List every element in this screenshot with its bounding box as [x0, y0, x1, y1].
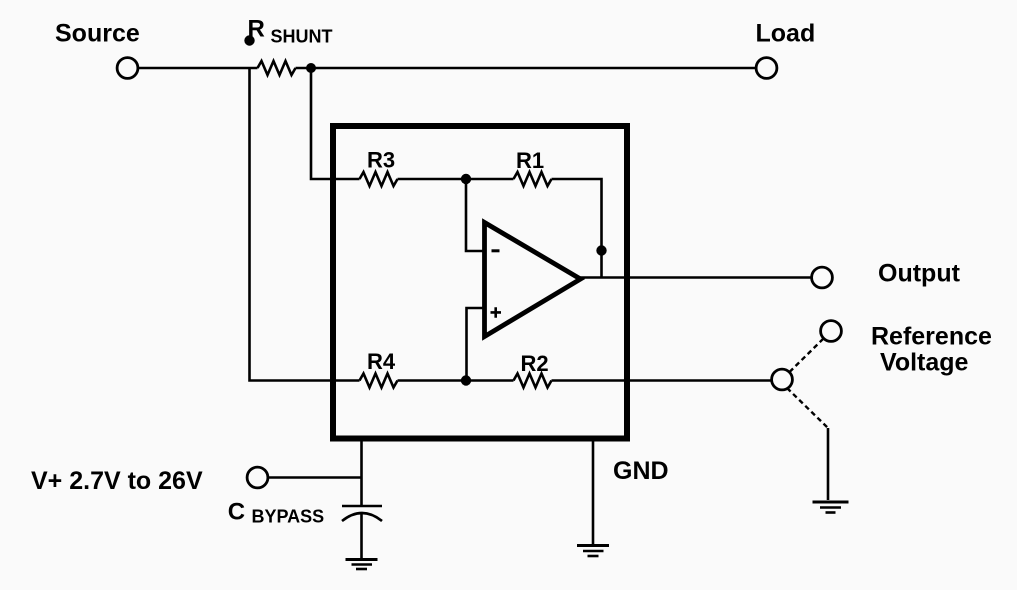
svg-text:R1: R1 — [516, 148, 544, 173]
ground reference symbol — [813, 502, 849, 513]
wire dashed reference to upper terminal — [790, 339, 824, 373]
wire bypass vertical from box — [360, 441, 363, 506]
capacitor CBYPASS plates — [342, 505, 382, 508]
wire dashed reference to ground branch — [787, 388, 828, 428]
IC box U1 — [333, 126, 627, 439]
wire output — [580, 276, 812, 279]
terminal Source — [117, 58, 138, 79]
svg-text:GND: GND — [613, 457, 669, 485]
svg-text:Load: Load — [756, 20, 816, 48]
wire GND stub — [592, 441, 595, 546]
svg-text:V+ 2.7V to 26V: V+ 2.7V to 26V — [31, 467, 203, 495]
op-amp plus sign — [491, 307, 502, 318]
svg-text:Voltage: Voltage — [880, 349, 969, 377]
resistor R2 — [514, 374, 552, 388]
svg-text:Reference: Reference — [871, 323, 992, 351]
ground bypass symbol — [346, 560, 378, 570]
svg-text:BYPASS: BYPASS — [252, 507, 325, 527]
terminal Output — [812, 267, 833, 288]
svg-text:C: C — [228, 499, 245, 526]
wire non-inverting input — [467, 308, 485, 381]
resistor RSHUNT — [258, 61, 296, 75]
wire R3 to junction to R1 — [398, 178, 514, 181]
terminal Reference upper — [821, 321, 842, 342]
resistor R1 — [514, 172, 552, 186]
wire R4 to junction to R2 — [398, 379, 514, 382]
node junction R3-R1 — [461, 174, 471, 184]
wire reference switch to ground — [827, 428, 830, 500]
resistor R4 — [360, 374, 398, 388]
stray dot under R label — [244, 35, 254, 45]
terminal V+ — [247, 467, 268, 488]
op-amp minus sign — [492, 249, 500, 252]
wire feedback R1 right down to output — [552, 179, 602, 278]
resistor R3 — [360, 172, 398, 186]
svg-text:R3: R3 — [367, 148, 395, 173]
svg-text:SHUNT: SHUNT — [271, 27, 333, 47]
svg-text:Output: Output — [878, 260, 961, 288]
wire R2 to reference terminal — [552, 379, 772, 382]
terminal Load — [756, 58, 777, 79]
terminal Reference lower — [772, 369, 793, 390]
svg-text:R4: R4 — [367, 349, 396, 374]
node junction feedback — [596, 245, 606, 255]
ground GND symbol — [577, 546, 609, 557]
wire source to RSHUNT — [139, 67, 258, 70]
wire vertical from source side down to R4 line — [250, 68, 360, 381]
svg-text:R: R — [248, 16, 265, 43]
node junction R4-R2 — [461, 375, 471, 385]
svg-text:R2: R2 — [521, 351, 549, 376]
wire capacitor to ground — [360, 514, 363, 558]
wire vertical from shunt output down to R3 line — [311, 68, 360, 179]
node junction top — [306, 63, 316, 73]
wire inverting input — [466, 179, 484, 251]
op-amp U1 — [485, 223, 581, 337]
wire V+ to bypass node — [268, 476, 362, 479]
svg-text:Source: Source — [55, 20, 140, 48]
wire RSHUNT to Load — [296, 67, 757, 70]
